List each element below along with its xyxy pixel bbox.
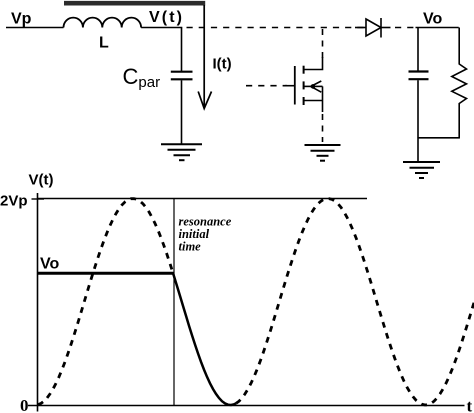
mosfet Q1 gate lead solid	[285, 85, 295, 87]
svg-text:t: t	[467, 397, 473, 413]
wire from inductor to node V(t)	[141, 27, 182, 29]
resistor R load	[452, 28, 467, 139]
dashed wire diode to output node	[395, 27, 416, 29]
svg-text:V(t): V(t)	[149, 9, 182, 26]
ground stem output	[417, 138, 419, 161]
ground output	[403, 162, 440, 178]
svg-text:time: time	[179, 240, 202, 254]
mosfet Q1 drain dashed connection up to node	[322, 29, 324, 58]
2Vp level line	[38, 198, 368, 200]
mosfet Q1 source dashed connection to ground	[322, 114, 324, 142]
y-axis	[37, 193, 39, 412]
mosfet Q1 body arrow	[304, 85, 311, 87]
ground under mosfet	[305, 145, 341, 161]
svg-text:0: 0	[20, 396, 29, 413]
vertical line resonance initial time	[173, 199, 175, 406]
mosfet Q1 gate dashed lead	[246, 85, 287, 87]
capacitor Cpar bottom lead	[181, 80, 183, 143]
current arrow I(t) arrowhead	[198, 92, 211, 109]
dashed wire V(t) node to diode anode	[187, 27, 365, 29]
output capacitor plates	[409, 70, 429, 72]
svg-text:2Vp: 2Vp	[0, 193, 28, 210]
dashed sine curve second part	[236, 199, 474, 405]
diode D1 cathode lead	[381, 27, 391, 29]
ground under Cpar	[161, 144, 202, 160]
svg-text:I(t): I(t)	[213, 56, 232, 73]
output node wire	[416, 27, 459, 29]
solid resonance fall curve	[173, 273, 236, 405]
mosfet Q1 source vertical	[322, 86, 324, 112]
thick top bar (switch trace)	[64, 1, 205, 6]
output capacitor bottom lead	[417, 80, 419, 138]
wire vertical from top bar down (I(t) branch)	[203, 5, 205, 107]
capacitor Cpar plates	[171, 71, 193, 73]
diode D1 cathode bar	[380, 18, 382, 38]
bottom wire cap to resistor	[418, 137, 460, 139]
tick 2Vp	[32, 198, 45, 200]
mosfet Q1 drain lead	[304, 57, 323, 70]
inductor L	[64, 18, 142, 28]
svg-text:Vo: Vo	[40, 256, 59, 273]
mosfet Q1 gate bar	[294, 66, 296, 105]
svg-text:V(t): V(t)	[29, 172, 54, 189]
svg-text:L: L	[99, 35, 109, 52]
diode D1 triangle	[366, 19, 381, 36]
mosfet Q1 channel segments	[303, 66, 305, 105]
svg-text:Vo: Vo	[423, 11, 442, 28]
dashed sine curve first part	[38, 199, 173, 405]
diode D1 anode lead	[355, 27, 366, 29]
x-axis	[28, 405, 465, 407]
mosfet Q1 source lead	[304, 100, 323, 102]
wire from Vp to inductor	[6, 27, 64, 29]
capacitor Cpar top lead	[181, 28, 183, 72]
Vo level thick line	[38, 272, 175, 275]
svg-text:Vp: Vp	[11, 11, 32, 28]
output capacitor top lead	[417, 28, 419, 71]
